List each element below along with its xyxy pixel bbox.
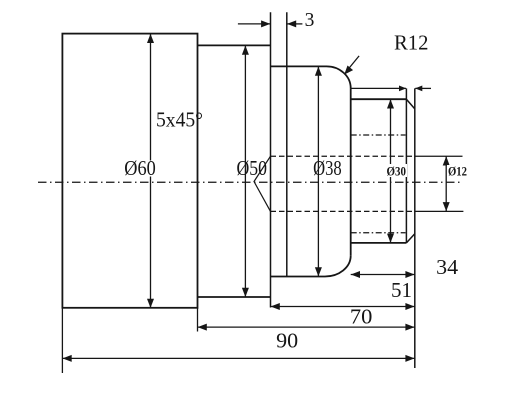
body Ø50 section top edge [198, 44, 271, 46]
dimension 3 left tail [238, 23, 271, 25]
centerline axis [38, 181, 462, 183]
svg-text:51: 51 [391, 278, 412, 302]
arrow Ø12 top [443, 156, 450, 165]
shoulder face between Ø38 and Ø30 [350, 88, 352, 256]
svg-text:Ø50: Ø50 [236, 156, 267, 180]
dimension Ø50 line [244, 46, 246, 297]
svg-text:90: 90 [276, 328, 298, 352]
arrow Ø50 top [242, 46, 249, 55]
arrow 70 right [405, 324, 414, 331]
groove right wall [286, 12, 288, 276]
svg-text:5x45°: 5x45° [156, 107, 203, 131]
svg-text:Ø30: Ø30 [386, 164, 406, 179]
dimension Ø12 line [445, 156, 447, 211]
arrow Ø60 bottom [147, 299, 154, 308]
drill cone tip of hole [254, 156, 271, 211]
label Ø60 background [124, 161, 157, 177]
svg-text:Ø12: Ø12 [448, 164, 467, 179]
label Ø12 background [447, 165, 468, 177]
dimension Ø60 line [150, 34, 152, 308]
groove left wall [270, 12, 272, 307]
arrow 3 left (points right) [261, 20, 270, 27]
label Ø30 background [385, 164, 407, 177]
arrow 3 right (points left) [287, 20, 296, 27]
chamfer circle edge line [405, 88, 407, 243]
extension line for 70 [197, 308, 199, 332]
dimension 90 line [62, 357, 414, 359]
dimension 70 line [198, 326, 415, 328]
svg-text:Ø60: Ø60 [124, 156, 156, 180]
arrow 90 left [63, 355, 72, 362]
dimension Ø38 line [317, 67, 319, 277]
body Ø50 section bottom edge [198, 296, 271, 298]
arrow chamfer dim left (points right) [399, 86, 406, 92]
arrow 34 left [351, 271, 360, 278]
hole Ø12 extension top [415, 155, 463, 157]
body Ø38 bottom edge with fillet R12 [271, 256, 351, 277]
chamfer diagonal top [406, 99, 414, 109]
arrow Ø12 bottom [443, 202, 450, 211]
svg-text:34: 34 [436, 255, 459, 279]
dimension 51 line [271, 306, 415, 308]
arrow Ø30 top [387, 99, 394, 108]
arrow 90 right [405, 355, 414, 362]
dimension 3 right tail [287, 23, 303, 25]
thread pitch dash-dot line bottom [351, 232, 406, 234]
body Ø30 top edge [351, 98, 407, 100]
arrow R12 leader [344, 66, 353, 75]
svg-text:Ø38: Ø38 [313, 156, 342, 180]
arrow Ø38 bottom [315, 267, 322, 276]
body Ø38 top edge with fillet R12 [271, 66, 351, 88]
dimension Ø30 line [390, 99, 392, 242]
arrow 51 right [405, 303, 414, 310]
hole Ø12 extension bottom [415, 210, 464, 212]
arrow chamfer dim right (points left) [415, 86, 422, 92]
extension line left for 90 [61, 308, 63, 373]
arrow Ø50 bottom [242, 288, 249, 297]
hidden hole Ø12 bottom wall [271, 210, 415, 212]
arrow 34 right [405, 271, 414, 278]
arrow Ø38 top [315, 67, 322, 76]
body Ø60 section outline [62, 34, 197, 308]
thread pitch dash-dot line top [351, 134, 406, 136]
chamfer small dimension right tail [415, 87, 431, 89]
svg-text:3: 3 [305, 10, 315, 31]
chamfer diagonal bottom [406, 234, 414, 243]
arrow 70 left [198, 324, 207, 331]
arrow 51 left [271, 303, 280, 310]
dimension 34 line [351, 274, 415, 276]
body Ø30 bottom edge [351, 242, 407, 244]
chamfer small dimension line [351, 87, 406, 89]
svg-text:70: 70 [350, 305, 373, 329]
svg-text:R12: R12 [394, 31, 429, 55]
right end face and extension line [414, 88, 416, 368]
leader line R12 [346, 56, 359, 72]
arrow Ø60 top [147, 34, 154, 43]
arrow Ø30 bottom [387, 234, 394, 243]
hidden hole Ø12 top wall [271, 155, 415, 157]
